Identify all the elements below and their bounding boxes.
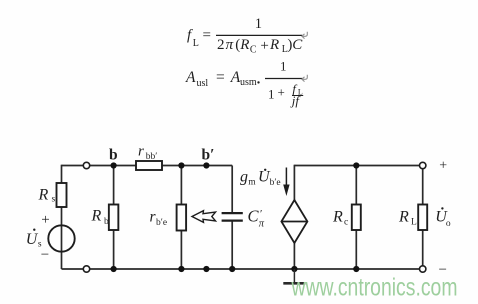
- formula fL = 1/(2pi(RC+RL)C): [187, 16, 303, 55]
- terminal open circle output bottom: [420, 266, 426, 272]
- svg-text:=: =: [216, 69, 225, 86]
- node e bottom: [203, 266, 209, 272]
- wire Rc branch: [355, 166, 357, 270]
- resistor rbb': [136, 161, 162, 170]
- svg-text:2: 2: [217, 37, 225, 53]
- svg-text:=: =: [203, 28, 211, 44]
- label + output: [439, 158, 447, 173]
- svg-text:1: 1: [280, 58, 287, 73]
- label Uo: [435, 207, 451, 229]
- node b': [203, 162, 209, 168]
- circuit lines: [62, 165, 423, 269]
- resistor rb'e: [177, 205, 187, 231]
- wire capacitor branch upper: [231, 166, 233, 214]
- svg-text:π: π: [259, 219, 265, 230]
- svg-text:1: 1: [255, 16, 262, 32]
- svg-text:b: b: [104, 217, 109, 227]
- return mark 2: [302, 75, 307, 82]
- label gm Ub'e: [240, 169, 281, 189]
- return mark 1: [302, 32, 307, 39]
- node Rb bottom: [111, 266, 117, 272]
- svg-text:C: C: [250, 45, 257, 56]
- svg-text:1: 1: [268, 86, 275, 101]
- label Us: [26, 229, 42, 250]
- label rbb': [138, 144, 157, 162]
- label C'pi: [248, 206, 265, 229]
- current direction arrow: [283, 168, 289, 197]
- svg-text:g: g: [240, 169, 248, 186]
- label b: [109, 147, 118, 164]
- terminal open circle output top: [420, 162, 426, 168]
- label Rb: [91, 208, 110, 228]
- svg-text:C: C: [248, 206, 260, 225]
- node source bottom: [291, 266, 297, 272]
- svg-text:usm: usm: [240, 77, 257, 88]
- capacitor C'pi: [222, 213, 243, 221]
- wire current source lower: [293, 243, 295, 270]
- svg-text:b: b: [109, 147, 118, 164]
- node b: [111, 162, 117, 168]
- svg-text:−: −: [41, 247, 49, 263]
- label Rs: [38, 187, 56, 205]
- svg-text:C: C: [292, 37, 303, 53]
- node rb'e bottom: [178, 266, 184, 272]
- svg-text:usl: usl: [197, 78, 209, 89]
- svg-text:r: r: [138, 144, 144, 160]
- label rb'e: [150, 209, 168, 229]
- svg-text:+: +: [260, 38, 268, 54]
- svg-text:b′: b′: [202, 147, 215, 164]
- svg-text:bb′: bb′: [146, 152, 158, 162]
- svg-text:π: π: [226, 37, 234, 53]
- wire top rail left: [62, 165, 233, 167]
- wire Rb branch: [113, 166, 115, 270]
- wire bottom rail: [62, 268, 423, 270]
- wire current source upper: [293, 165, 295, 201]
- svg-text:R: R: [398, 209, 409, 226]
- svg-text:R: R: [239, 37, 249, 53]
- node rb'e top: [178, 162, 184, 168]
- node cap bottom: [229, 266, 235, 272]
- svg-text:+: +: [439, 158, 447, 173]
- resistor RL: [418, 205, 427, 231]
- svg-text:R: R: [91, 208, 102, 225]
- label + of source: [41, 212, 49, 228]
- label RL: [398, 209, 417, 228]
- svg-text:R: R: [269, 37, 279, 53]
- node Rc bottom: [353, 266, 359, 272]
- source Us: [48, 225, 74, 251]
- svg-text:m: m: [248, 178, 256, 188]
- svg-text:b′e: b′e: [156, 218, 167, 228]
- wire left rail: [61, 165, 63, 269]
- svg-text:+: +: [41, 212, 49, 228]
- resistor Rb: [109, 205, 119, 231]
- label b': [202, 147, 215, 164]
- formula Ausl = Ausm * 1/(1+fL/jf): [185, 58, 303, 108]
- svg-text:b′e: b′e: [270, 178, 281, 188]
- svg-text:o: o: [446, 219, 451, 229]
- svg-text:L: L: [411, 218, 417, 228]
- ground: [283, 269, 305, 283]
- arrow pointing left at rb'e: [192, 211, 216, 223]
- wire rb'e branch: [180, 166, 182, 270]
- node Rc top: [353, 162, 359, 168]
- label Rc: [332, 209, 348, 228]
- resistor Rc: [352, 205, 361, 231]
- terminal open circle top left: [83, 162, 89, 168]
- svg-text:www.cntronics.com: www.cntronics.com: [291, 274, 458, 302]
- svg-text:A: A: [185, 69, 196, 86]
- svg-text:s: s: [52, 195, 56, 205]
- label - of source: [41, 247, 49, 263]
- wire capacitor branch lower: [231, 221, 233, 269]
- watermark: [291, 274, 458, 302]
- wire RL branch: [422, 169, 424, 267]
- svg-text:+: +: [278, 85, 285, 100]
- dependent current source diamond: [281, 200, 307, 243]
- svg-text:c: c: [344, 217, 348, 227]
- svg-text:R: R: [332, 209, 343, 226]
- svg-text:R: R: [38, 187, 49, 204]
- wire right top rail: [294, 165, 422, 167]
- label - output: [439, 262, 447, 278]
- svg-text:s: s: [38, 239, 42, 249]
- svg-text:U: U: [26, 231, 39, 248]
- svg-text:L: L: [193, 38, 199, 49]
- resistor Rs: [57, 183, 67, 207]
- terminal open circle bottom left: [83, 266, 89, 272]
